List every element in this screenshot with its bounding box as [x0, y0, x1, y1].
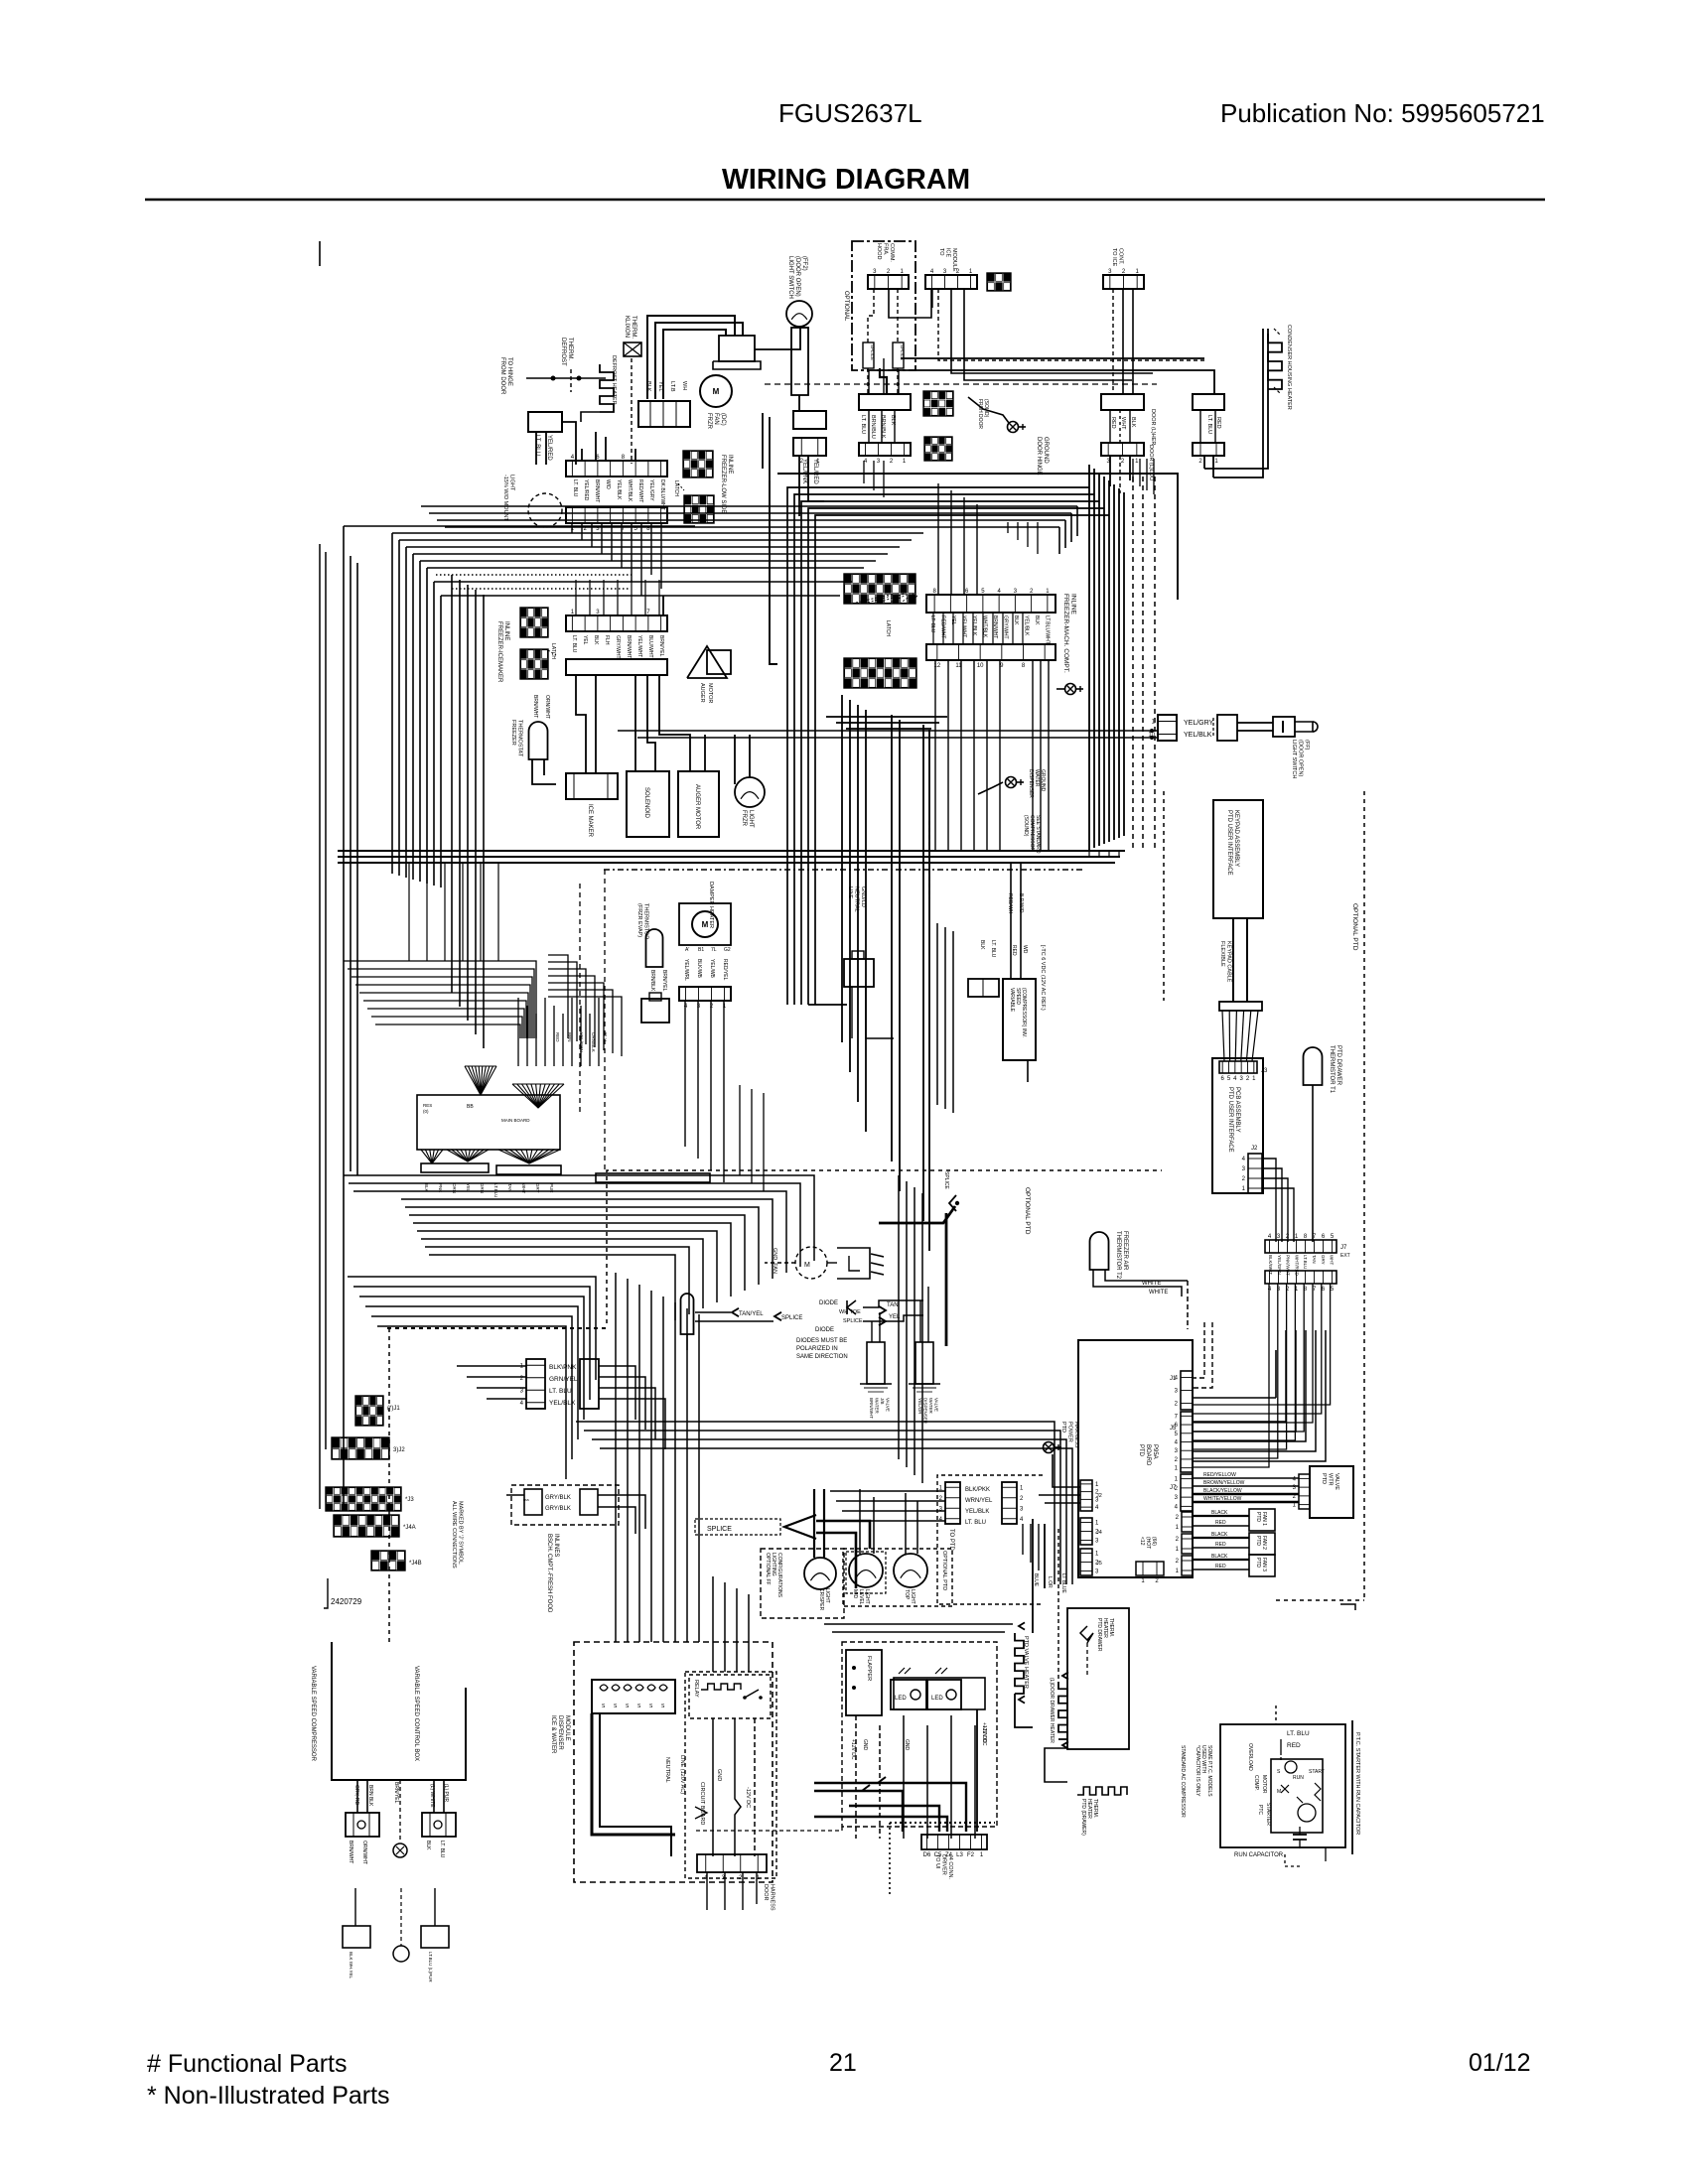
connector suction upper bar	[859, 394, 911, 410]
keypad cable fanout wires	[1222, 1011, 1258, 1061]
ice and water dispenser module label	[550, 1715, 570, 1754]
fresh food mount light dashed circle	[502, 475, 562, 527]
connector door cavity REC 3-pin	[1101, 443, 1154, 481]
ptc motor circles	[1281, 1761, 1316, 1822]
svg-text:LED: LED	[931, 1696, 943, 1702]
svg-text:TO: TO	[938, 248, 944, 256]
svg-text:ICE: ICE	[945, 248, 951, 258]
labels vs wires upper	[353, 1784, 449, 1808]
svg-text:NEUTRAL: NEUTRAL	[854, 887, 860, 912]
svg-text:FRZR: FRZR	[706, 413, 712, 430]
svg-text:PTD VALVE HEATER: PTD VALVE HEATER	[1023, 1636, 1029, 1689]
footer page number 21	[829, 2049, 857, 2077]
svg-text:STARTER: STARTER	[1265, 1803, 1271, 1826]
svg-text:HEATER: HEATER	[1102, 1618, 1108, 1638]
wires into yel/gry connector	[618, 729, 1158, 740]
svg-text:BLACK: BLACK	[1211, 1510, 1228, 1516]
svg-text:LIGHTING: LIGHTING	[771, 1553, 776, 1576]
svg-text:7L: 7L	[711, 947, 717, 953]
ptc standard note	[1180, 1745, 1186, 1818]
svg-text:TO HINGE: TO HINGE	[506, 357, 512, 386]
labels above board small	[555, 1032, 608, 1052]
svg-text:FLEXIBLE: FLEXIBLE	[1219, 941, 1225, 967]
svg-text:HARNESS: HARNESS	[770, 1884, 775, 1911]
svg-text:EXT: EXT	[1340, 1253, 1350, 1259]
svg-text:PTD: PTD	[1255, 1558, 1261, 1568]
svg-text:GRY: GRY	[1321, 1255, 1326, 1265]
svg-text:LT. BLU: LT. BLU	[929, 615, 935, 633]
svg-text:BOARD: BOARD	[1145, 1444, 1151, 1466]
dashed boundary line y387	[765, 383, 1157, 385]
optional ptd dashed boundary main	[387, 1170, 1162, 1642]
svg-text:BLK: BLK	[979, 940, 985, 950]
wire pair right of freezer-low latch	[763, 413, 770, 480]
svg-text:THERM.: THERM.	[631, 316, 636, 339]
svg-text:BLK/PKK: BLK/PKK	[965, 1487, 990, 1493]
svg-text:YEL/RED: YEL/RED	[812, 459, 818, 484]
svg-text:FAN 3: FAN 3	[1261, 1558, 1267, 1571]
svg-text:GRY/BLK: GRY/BLK	[545, 1506, 571, 1512]
svg-text:(FF2): (FF2)	[801, 256, 807, 271]
svg-text:DISPENSER: DISPENSER	[557, 1715, 563, 1750]
svg-text:BLK: BLK	[1034, 615, 1040, 625]
wires ptd valve	[1193, 1478, 1299, 1502]
svg-text:HARNESS: HARNESS	[1073, 1422, 1079, 1448]
labels suction connector	[860, 415, 896, 439]
labels gry/blk pair	[545, 1495, 571, 1512]
svg-text:AUGER: AUGER	[699, 683, 705, 703]
auger motor box	[678, 771, 719, 837]
wires H3 right risers to icemaker bars	[1008, 522, 1038, 554]
svg-text:*J4B: *J4B	[409, 1561, 422, 1567]
svg-text:LED: LED	[895, 1696, 907, 1702]
svg-text:STANDARD AC COMPRESSOR: STANDARD AC COMPRESSOR	[1180, 1745, 1186, 1818]
latch dashed label	[673, 480, 684, 496]
svg-text:WHITE/YELLOW: WHITE/YELLOW	[1203, 1496, 1242, 1502]
wires heater box bottom step	[1045, 1748, 1067, 1782]
dispenser relay dashed box	[689, 1675, 771, 1718]
wires inverter top	[1011, 864, 1028, 1082]
connector gry/blk left	[523, 1489, 542, 1515]
wires heaters vertical drops	[1015, 1519, 1058, 1727]
svg-text:YEL/BLK: YEL/BLK	[1024, 615, 1030, 636]
damper heater pin labels	[685, 947, 731, 953]
ptc labels lt.blu red	[1281, 1730, 1310, 1762]
svg-text:(L) PUR: (L) PUR	[443, 1784, 449, 1802]
labels to ptd wires	[965, 1487, 993, 1526]
svg-text:MOTOR: MOTOR	[1261, 1775, 1267, 1794]
svg-text:J1: J1	[1170, 1376, 1177, 1382]
dispenser bus thick line	[592, 1713, 675, 1856]
ptc overload label	[1247, 1743, 1253, 1771]
svg-text:FAN: FAN	[713, 413, 719, 425]
svg-text:THERMISTOR: THERMISTOR	[643, 903, 649, 939]
dashed drop below dispenser ground	[928, 821, 930, 898]
svg-text:(SOLID): (SOLID)	[983, 399, 989, 418]
svg-text:D6: D6	[923, 1852, 931, 1858]
wires dispenser bar drops	[707, 1872, 757, 1910]
svg-text:PTD DRAWER: PTD DRAWER	[1096, 1618, 1102, 1652]
wire bundle V1 right verticals	[1089, 465, 1124, 850]
svg-text:VALVE: VALVE	[886, 1398, 891, 1412]
title WIRING DIAGRAM	[722, 164, 970, 196]
wires top bars down to H3	[572, 523, 661, 596]
svg-text:BRN/YEL: BRN/YEL	[658, 635, 664, 657]
staircase elbows left of damper	[548, 955, 622, 1056]
svg-text:THERMISTOR T2: THERMISTOR T2	[1115, 1231, 1121, 1280]
svg-text:GRN/YEL: GRN/YEL	[549, 1376, 578, 1383]
header model number FGUS2637L	[778, 98, 922, 128]
water valve J/B assembly	[860, 1342, 892, 1419]
svg-text:*CAPACITOR IS ONLY: *CAPACITOR IS ONLY	[1195, 1745, 1200, 1797]
splice S1 in optional box	[863, 342, 875, 368]
svg-text:YEL/BLK: YEL/BLK	[965, 1509, 989, 1515]
svg-text:CIRCUIT BOARD: CIRCUIT BOARD	[699, 1782, 705, 1825]
svg-text:2420729: 2420729	[331, 1597, 362, 1606]
ptc comp motor label	[1253, 1775, 1267, 1794]
freezer-low side inline bar lower	[566, 507, 667, 532]
connector door heater LT.BLU RED upper	[1193, 394, 1224, 410]
svg-text:BLK WH.YEL: BLK WH.YEL	[349, 1952, 353, 1979]
svg-text:INLINE: INLINE	[1070, 594, 1077, 615]
svg-text:YEL/BLK: YEL/BLK	[971, 615, 977, 636]
svg-text:BRN: BRN	[567, 1032, 572, 1042]
svg-text:YEL/GRY: YEL/GRY	[1184, 720, 1214, 727]
svg-text:THERM.: THERM.	[567, 338, 573, 360]
optional icemaker dash-dot box	[843, 241, 915, 370]
svg-text:OPTIONAL PTD: OPTIONAL PTD	[1351, 903, 1358, 951]
svg-text:VALVE: VALVE	[1334, 1473, 1339, 1490]
board connector bar lower-mid	[496, 1165, 561, 1174]
svg-text:LT. BLU: LT. BLU	[1206, 415, 1212, 434]
svg-text:SPLICE: SPLICE	[943, 1171, 949, 1189]
wire wrap bottom horizontals under compt latch	[808, 717, 947, 1005]
svg-text:WD: WD	[1022, 945, 1028, 954]
wire bundle center x845-935 verticals	[842, 695, 929, 1251]
svg-text:SAME DIRECTION: SAME DIRECTION	[796, 1354, 848, 1360]
wires fan bundle top	[647, 316, 800, 399]
svg-text:PNK/WHT: PNK/WHT	[1286, 1255, 1291, 1276]
svg-text:HEATER: HEATER	[1086, 1799, 1092, 1819]
wire bundle compt-inline risers	[933, 613, 1023, 644]
freezer-icemaker inline title	[496, 621, 509, 683]
latch block freezer-icemaker lower	[520, 649, 548, 679]
wires H4 to lower area verticals	[409, 863, 498, 961]
wires J7 lower down to ptd board	[1193, 1284, 1331, 1467]
svg-text:FRSH DOOR: FRSH DOOR	[977, 399, 983, 429]
svg-text:LT. BLU: LT. BLU	[439, 1841, 445, 1858]
labels blk/pnk grn/yel lt.blu yel/blk	[549, 1364, 578, 1407]
svg-text:FAN 2: FAN 2	[1261, 1536, 1267, 1550]
svg-text:YEL/RED: YEL/RED	[583, 479, 589, 501]
staircase bundle lower horizontals	[348, 1277, 596, 1479]
svg-text:WHT/BLK: WHT/BLK	[627, 479, 633, 502]
wires water valves up	[872, 1287, 928, 1342]
svg-text:TO UI: TO UI	[934, 1854, 940, 1869]
svg-text:VALVE: VALVE	[934, 1398, 939, 1412]
svg-text:LINE: LINE	[847, 887, 853, 899]
ptd water valve box	[1293, 1466, 1353, 1518]
main control board outline	[417, 1095, 560, 1150]
connector gry/blk right	[580, 1489, 598, 1515]
header publication number	[1220, 98, 1545, 128]
wires ui horizontals thick	[814, 1777, 966, 1832]
wires freezer thermostat	[532, 759, 556, 784]
svg-text:PTD USER INTERFACE: PTD USER INTERFACE	[1226, 810, 1232, 876]
svg-text:TAN: TAN	[887, 1302, 899, 1308]
connector J2 ptd board left	[1080, 1480, 1102, 1511]
ptd fan 1 circuit	[1176, 1509, 1275, 1532]
svg-text:RED: RED	[1110, 417, 1116, 429]
svg-text:LIGHT: LIGHT	[748, 810, 754, 828]
wires ice cont pins down	[1113, 289, 1133, 394]
klixon dashed wire down	[631, 358, 633, 464]
svg-text:YEL/WRL: YEL/WRL	[683, 959, 689, 981]
svg-text:OVERLOAD: OVERLOAD	[1247, 1743, 1253, 1771]
svg-text:(L)DOOR DRAWER HEATER: (L)DOOR DRAWER HEATER	[1049, 1678, 1055, 1743]
connector bar J7 lower	[1265, 1271, 1336, 1293]
svg-text:PTD: PTD	[1060, 1422, 1066, 1433]
svg-text:DEFROST HEATER: DEFROST HEATER	[611, 355, 617, 405]
svg-text:BSCH. CMPT.-FRESH FOOD: BSCH. CMPT.-FRESH FOOD	[546, 1534, 552, 1613]
labels damper connector	[683, 959, 728, 981]
wires heater drops labels	[1033, 1573, 1066, 1593]
connector J3 on ptd ui pcb	[1219, 1061, 1268, 1082]
svg-text:SOME P.T.C. MODELS: SOME P.T.C. MODELS	[1206, 1745, 1212, 1797]
svg-text:CONDENSER HOUSING HEATER: CONDENSER HOUSING HEATER	[1286, 325, 1292, 410]
connector TO ICE CONT 3-pin	[1103, 248, 1144, 289]
svg-text:GRY/WHT: GRY/WHT	[615, 635, 621, 659]
latch dashed label icemaker	[548, 643, 556, 659]
svg-text:*J3: *J3	[405, 1497, 414, 1503]
svg-text:YEL/OR: YEL/OR	[917, 1398, 922, 1415]
wire verticals right-center group	[899, 1175, 922, 1483]
note sound compressor standard	[1023, 815, 1041, 854]
svg-text:M: M	[702, 920, 709, 929]
svg-text:BLK: BLK	[1013, 615, 1019, 625]
svg-text:WH TOE: WH TOE	[839, 1309, 861, 1315]
wires suction bars link	[869, 358, 899, 443]
optional ptd lights label	[941, 1551, 947, 1590]
svg-text:DEFROST: DEFROST	[560, 338, 566, 366]
svg-text:WRN/YEL: WRN/YEL	[965, 1498, 993, 1504]
ice maker box	[566, 773, 618, 838]
svg-text:(HOT: (HOT	[1145, 1537, 1151, 1549]
dotted boundary dispenser ui bottom	[890, 1823, 995, 1894]
wire verticals center to bottom	[616, 1273, 699, 1642]
label frsh door solid	[977, 399, 989, 429]
svg-text:P95A: P95A	[1152, 1444, 1158, 1459]
auger motor drive symbol	[687, 646, 731, 703]
connector J4 ptd board left	[1080, 1518, 1102, 1545]
svg-text:WH: WH	[681, 381, 687, 390]
svg-text:BLK\PNK: BLK\PNK	[549, 1364, 577, 1371]
wires right risers from compt bar2 to H4	[1033, 660, 1049, 851]
label 6VDC ref vertical	[1040, 945, 1046, 1011]
svg-text:(FRZR EVAP): (FRZR EVAP)	[636, 903, 642, 937]
svg-text:KEYPAD ASSEMBLY: KEYPAD ASSEMBLY	[1233, 810, 1239, 867]
connector J5 ptd board right	[1170, 1412, 1193, 1472]
wire junction dots defrost	[526, 376, 606, 381]
condenser housing heater zigzag	[1268, 325, 1292, 410]
cold fan bracket box	[837, 1248, 870, 1279]
connector legend J4B	[371, 1551, 422, 1570]
svg-text:PTD (DRAWER): PTD (DRAWER)	[1080, 1799, 1086, 1836]
svg-text:ORN/BLK: ORN/BLK	[591, 1032, 596, 1052]
svg-text:ICE MAKER: ICE MAKER	[587, 804, 593, 838]
wires door heater pins down	[1200, 410, 1215, 478]
connector J7 ptd valve pins	[1170, 1474, 1193, 1511]
ptd user interface pcb assembly box	[1212, 1058, 1263, 1193]
svg-text:M: M	[804, 1262, 810, 1269]
svg-text:TOP: TOP	[904, 1589, 910, 1600]
svg-text:BLK/WHT: BLK/WHT	[1268, 1255, 1273, 1275]
bsch cmpt fresh food inlines dashed box	[511, 1485, 619, 1525]
svg-text:L.OR: L.OR	[1047, 1576, 1053, 1588]
staircase bundle main to right	[344, 1175, 814, 1320]
wire bundle V2 left verticals	[344, 526, 441, 1509]
svg-text:LT. BLU: LT. BLU	[990, 940, 996, 958]
svg-text:AUGER MOTOR: AUGER MOTOR	[694, 784, 700, 830]
svg-text:WTR: WTR	[1328, 1473, 1334, 1486]
ptd fan 2 circuit	[1176, 1532, 1275, 1555]
board harness fanout lower-1	[421, 1150, 443, 1163]
svg-text:WHITE: WHITE	[1149, 1290, 1168, 1296]
wire long dashed freezer side	[580, 870, 605, 1170]
board harness fanout upper-left	[465, 1066, 496, 1095]
thermistor T1 ptd drawer bulb	[1304, 1045, 1342, 1094]
vs bottom connectors	[343, 1888, 449, 1982]
freezer-icemaker inline bar upper	[566, 610, 667, 631]
svg-text:DIODES MUST BE: DIODES MUST BE	[796, 1338, 847, 1344]
freezer thermostat bulb	[510, 720, 548, 759]
to ui driver label	[934, 1854, 953, 1880]
svg-text:GND: GND	[862, 1739, 868, 1751]
connector YEL/GRY YEL/BLK 2-pin	[1148, 715, 1177, 741]
svg-text:WHT: WHT	[1330, 1255, 1335, 1265]
freezer fan wire labels	[645, 381, 687, 392]
wires crisper light	[814, 1489, 824, 1558]
svg-text:(DC): (DC)	[720, 413, 726, 426]
dispenser connector bar	[697, 1854, 767, 1881]
dispenser ui labels	[850, 1725, 987, 1760]
svg-text:FREEZER: FREEZER	[510, 720, 516, 746]
svg-text:LT. BLU: LT. BLU	[571, 635, 577, 653]
svg-text:J7: J7	[1170, 1485, 1177, 1491]
svg-text:J2: J2	[1096, 1493, 1102, 1499]
svg-text:LEVEL: LEVEL	[858, 1589, 864, 1605]
wires FF2 switch down	[799, 456, 824, 516]
note diodes must be polarized	[796, 1338, 848, 1360]
svg-text:WIRING DIAGRAM: WIRING DIAGRAM	[722, 164, 970, 196]
svg-text:RED/YELLOW: RED/YELLOW	[1203, 1472, 1236, 1478]
svg-text:COMPRESSOR: COMPRESSOR	[1029, 815, 1035, 852]
svg-text:J/B: J/B	[880, 1398, 885, 1405]
wire thermistor T1 down	[1312, 1085, 1314, 1242]
connector J5 ptd board left	[1080, 1549, 1102, 1575]
svg-text:YEL/GRY: YEL/GRY	[648, 479, 654, 501]
board harness fanout upper-right	[512, 1084, 564, 1108]
svg-text:SPLICE: SPLICE	[843, 1318, 863, 1324]
svg-text:DISPENSER: DISPENSER	[923, 1398, 928, 1425]
svg-text:TO PTD: TO PTD	[948, 1529, 954, 1552]
svg-text:RELAY: RELAY	[693, 1680, 699, 1698]
vs connector block left	[346, 1813, 379, 1837]
svg-text:WATER: WATER	[928, 1398, 933, 1414]
svg-text:BLK: BLK	[890, 415, 896, 426]
svg-text:BRN/YEL: BRN/YEL	[661, 970, 667, 992]
vs far-left long vertical	[320, 544, 326, 1509]
svg-text:FREEZER-MACH. COMPT.: FREEZER-MACH. COMPT.	[1062, 594, 1069, 673]
thermistor small pill left of diode	[681, 1294, 694, 1350]
latch dotted fan upper	[852, 594, 918, 604]
svg-text:RED: RED	[1215, 1564, 1226, 1570]
svg-text:DAMPER HEATER: DAMPER HEATER	[708, 882, 714, 928]
svg-text:DOOR HINGE: DOOR HINGE	[1036, 437, 1042, 476]
hatched block fresh door plug	[923, 391, 953, 416]
labels between freezer-low side bars	[572, 479, 665, 510]
svg-text:RED: RED	[1215, 417, 1221, 429]
svg-text:RUN CAPACITOR: RUN CAPACITOR	[1234, 1852, 1284, 1858]
ptc capacitor note	[1195, 1745, 1212, 1797]
svg-text:LT. BLU: LT. BLU	[860, 415, 866, 434]
svg-text:RED/YEL: RED/YEL	[722, 959, 728, 981]
svg-text:-12V DC: -12V DC	[745, 1787, 751, 1808]
svg-text:BRN/YEL: BRN/YEL	[393, 1782, 399, 1804]
mid level light lamp	[846, 1552, 886, 1605]
svg-text:KLIXON: KLIXON	[624, 316, 630, 338]
icemaker plug hatched block	[987, 273, 1011, 291]
thick wire from splice	[879, 1206, 955, 1346]
wires into J1 dashed from top	[1193, 1322, 1276, 1398]
latch block compt upper left	[844, 574, 915, 604]
svg-text:ma: ma	[523, 1497, 529, 1502]
optional ptd label right	[1351, 903, 1358, 951]
wires center risers x944-960	[937, 923, 953, 1113]
svg-text:WHT: WHT	[1120, 417, 1126, 430]
labels vs blocks lower	[348, 1841, 445, 1864]
freezer-mach compt title	[1062, 594, 1077, 673]
svg-text:LATCH: LATCH	[885, 620, 891, 636]
svg-text:BB: BB	[467, 1104, 474, 1110]
labels brn/blk brn/yel	[649, 970, 667, 992]
labels between freezer-icemaker bars	[571, 635, 664, 659]
freezer-mach compt inline bar upper	[926, 589, 1055, 613]
wires diode detail	[695, 1300, 923, 1321]
wires from suction connector down	[864, 461, 884, 497]
svg-text:RED: RED	[1215, 1520, 1226, 1526]
svg-text:SEE STANDARD: SEE STANDARD	[1035, 815, 1041, 854]
svg-text:YEL/RED: YEL/RED	[546, 435, 552, 461]
svg-text:GRY, RD: GRY, RD	[353, 1785, 359, 1805]
wires into J5 right horizontals	[1193, 1330, 1326, 1461]
wires vertical near to-ptd	[830, 1491, 1039, 1570]
condenser housing heater vertical feed lines	[1204, 329, 1268, 478]
svg-text:W/D: W/D	[605, 479, 611, 489]
svg-text:THERMOSTAT: THERMOSTAT	[517, 720, 523, 757]
svg-text:YEL/PNK: YEL/PNK	[801, 459, 807, 483]
wire bundle H4 cross band	[338, 851, 1125, 870]
ptd valve heater zigzag	[1015, 1622, 1029, 1703]
wire zigzag bottom ptd heater	[1077, 1787, 1127, 1836]
svg-text:FREEZER-LOW SIDE: FREEZER-LOW SIDE	[720, 455, 726, 513]
part number 2420729	[324, 1578, 362, 1608]
svg-text:MAIN BOARD: MAIN BOARD	[501, 1118, 530, 1123]
svg-text:LT BLUE: LT BLUE	[1060, 1573, 1066, 1593]
wires from 4-pin mate right	[599, 1366, 665, 1449]
title underline rule	[145, 199, 1545, 201]
svg-text:RED: RED	[555, 1032, 560, 1042]
